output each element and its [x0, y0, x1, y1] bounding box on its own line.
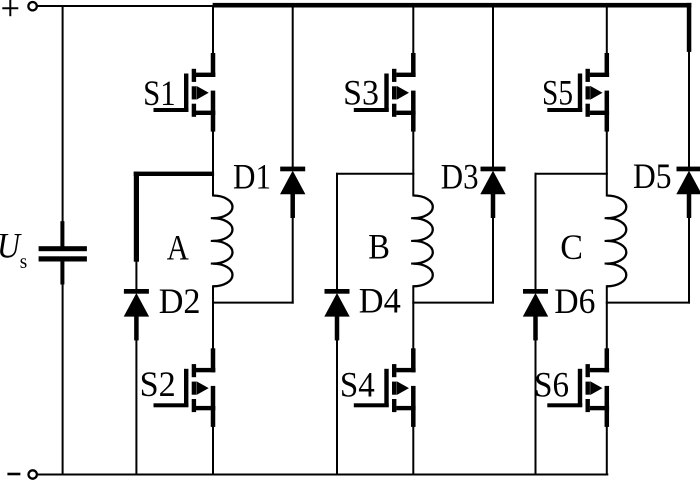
transistor S2 (lower MOSFET)	[154, 348, 216, 427]
diode D1 (return diode upper)	[280, 167, 305, 218]
transistor S5 (upper MOSFET)	[547, 53, 609, 132]
wire: thick link winding-top to D2 branch (phase A)	[134, 172, 214, 176]
wire: link winding-bottom to D5 branch	[606, 302, 690, 304]
wire: D5 branch lower segment	[688, 218, 690, 304]
wire: link winding-bottom to D3 branch	[412, 302, 494, 304]
diode D2 (return diode lower)	[124, 289, 149, 340]
transistor S6 (lower MOSFET)	[547, 348, 609, 427]
wire: B upper-switch drain drop	[412, 5, 414, 77]
diode D6 (return diode lower)	[523, 289, 548, 340]
wire: D5 branch upper segment	[688, 50, 690, 168]
svg-text:D5: D5	[633, 156, 672, 196]
wire: C source to winding top node	[606, 131, 608, 197]
wire: top bus thick segment	[213, 3, 692, 8]
wire: winding bottom to node	[606, 285, 608, 350]
minus sign	[7, 473, 20, 476]
transistor S4 (lower MOSFET)	[354, 348, 416, 427]
svg-text:D6: D6	[554, 281, 595, 321]
diode D4 (return diode lower)	[324, 289, 349, 340]
wire: winding bottom to node	[412, 285, 414, 350]
wire: thick left branch rail (phase A)	[134, 172, 139, 262]
wire: D4 anode to bottom bus	[336, 339, 338, 475]
svg-text:S6: S6	[534, 365, 569, 405]
wire: D3 branch lower segment	[492, 218, 494, 304]
wire: D6 branch upper drop	[535, 173, 537, 290]
wire: link winding-bottom to D1 branch	[212, 302, 294, 304]
wire: D2 anode to bottom bus	[135, 339, 137, 475]
wire: link winding-top to D6 branch	[535, 173, 608, 175]
wire: B source to winding top node	[412, 131, 414, 197]
wire: thick corner stub down to D5	[687, 3, 692, 52]
wire: D1 branch upper segment	[292, 5, 294, 168]
wire: winding bottom to node	[212, 285, 214, 350]
svg-text:D2: D2	[159, 281, 201, 321]
terminal + (positive input)	[28, 2, 36, 10]
transistor S3 (upper MOSFET)	[354, 53, 416, 132]
diode D5 (return diode upper)	[676, 167, 700, 218]
wire: bottom bus	[37, 474, 608, 476]
wire: A source to winding top node	[212, 131, 214, 197]
inductor winding A	[211, 196, 233, 287]
svg-text:D4: D4	[359, 281, 401, 321]
inductor winding C	[605, 196, 627, 287]
svg-text:A: A	[167, 228, 189, 268]
svg-text:D1: D1	[233, 156, 271, 196]
wire: S6 source to bottom bus	[606, 426, 608, 475]
wire: left rail upper (to capacitor)	[62, 5, 64, 249]
svg-text:B: B	[368, 227, 390, 267]
terminal - (negative input)	[29, 470, 37, 478]
svg-text:S4: S4	[340, 365, 375, 405]
wire: D3 branch upper segment	[492, 5, 494, 168]
wire: top bus thin segment	[37, 5, 214, 7]
wire: A upper-switch drain drop	[212, 5, 214, 77]
wire: left rail lower (capacitor to bottom bus)	[62, 259, 64, 475]
svg-text:S1: S1	[143, 73, 176, 113]
inductor winding B	[411, 196, 433, 287]
plus sign	[2, 7, 18, 9]
wire: D4 branch upper drop	[336, 173, 338, 290]
wire: S4 source to bottom bus	[412, 426, 414, 475]
wire: D1 branch lower segment	[292, 218, 294, 304]
svg-text:S5: S5	[542, 73, 573, 113]
svg-text:C: C	[560, 227, 583, 267]
svg-text:s: s	[20, 251, 28, 273]
transistor S1 (upper MOSFET)	[154, 53, 216, 132]
diode D3 (return diode upper)	[480, 167, 505, 218]
wire: D6 anode to bottom bus	[535, 339, 537, 475]
svg-text:S2: S2	[140, 364, 176, 404]
capacitor Us	[60, 221, 64, 247]
svg-text:U: U	[0, 226, 22, 266]
svg-text:S3: S3	[343, 73, 379, 113]
wire: thin continuation to D2	[135, 260, 137, 290]
svg-text:D3: D3	[441, 156, 479, 196]
wire: link winding-top to D4 branch	[336, 173, 414, 175]
wire: S2 source to bottom bus	[212, 426, 214, 475]
wire: C upper-switch drain drop	[606, 5, 608, 77]
